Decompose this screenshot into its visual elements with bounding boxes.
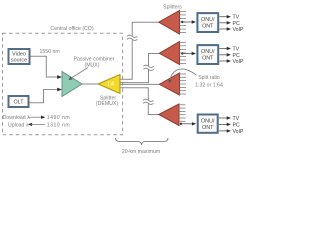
wire: MUX to DEMUX	[82, 83, 98, 85]
wire: DEMUX output 3 to splitter 3	[120, 83, 159, 85]
svg-text:ONU/: ONU/	[201, 17, 215, 23]
combiner triangle: Passive combiner (MUX)	[62, 72, 82, 97]
outputs: TV PC VoIP of ONU 1	[219, 15, 244, 33]
box: OLT	[9, 96, 29, 107]
label: Passive combiner (MUX)	[74, 57, 115, 69]
svg-text:TV: TV	[233, 47, 240, 53]
dashed enclosure: Central office (CO)	[3, 33, 123, 135]
label: 1550 nm	[40, 49, 60, 55]
svg-text:ONU/: ONU/	[201, 118, 215, 124]
splitter triangle 3	[159, 73, 186, 95]
label: Splitter (DEMUX)	[96, 95, 118, 107]
svg-text:Upload λ: Upload λ	[8, 122, 29, 128]
label row: Download wavelength 1490 nm	[3, 115, 71, 121]
svg-text:VoIP: VoIP	[233, 27, 244, 33]
callout arrow to MUX	[69, 68, 89, 81]
brace: 20-km span	[115, 138, 168, 145]
label row: Upload wavelength 1310 nm	[8, 122, 70, 128]
svg-text:OLT: OLT	[13, 100, 24, 106]
wire: DEMUX output 4 to splitter 4	[120, 88, 159, 115]
outputs: TV PC VoIP of ONU 3	[219, 116, 244, 135]
splitter triangle 4	[159, 104, 186, 126]
svg-text:VoIP: VoIP	[233, 129, 244, 135]
svg-text:VoIP: VoIP	[233, 59, 244, 65]
box: ONU/ONT 1	[197, 13, 218, 32]
wire: DEMUX output 2 to splitter 2	[120, 54, 159, 83]
svg-text:20-km maximum: 20-km maximum	[122, 149, 160, 155]
svg-text:PC: PC	[233, 122, 240, 128]
svg-text:ONU/: ONU/	[201, 49, 215, 55]
svg-text:1:4: 1:4	[107, 82, 114, 88]
label: Splitters	[163, 4, 182, 10]
label: Central office (CO)	[50, 26, 93, 32]
svg-text:1310 nm: 1310 nm	[47, 122, 70, 128]
break symbol on wire 2	[143, 65, 153, 70]
break symbol on wire 4	[143, 99, 153, 104]
svg-text:Central office (CO): Central office (CO)	[50, 26, 93, 32]
splitter triangle 1	[159, 11, 186, 35]
svg-text:source: source	[11, 58, 27, 64]
label: Split ratio 1:32 or 1:64	[195, 75, 223, 88]
svg-text:(DEMUX): (DEMUX)	[96, 101, 118, 107]
svg-text:1550 nm: 1550 nm	[40, 49, 60, 55]
svg-text:TV: TV	[233, 116, 240, 122]
box: Video source	[9, 49, 30, 64]
outputs: TV PC VoIP of ONU 2	[219, 47, 244, 66]
svg-text:(MUX): (MUX)	[85, 63, 100, 69]
wire: video source to combiner	[31, 56, 63, 79]
label: 20-km maximum	[122, 149, 160, 155]
splitter triangle 2	[159, 42, 186, 65]
svg-text:1490 nm: 1490 nm	[47, 115, 70, 121]
wire: splitter 1 to ONU 1	[181, 20, 196, 23]
svg-text:ONT: ONT	[202, 24, 214, 30]
wire: splitter 2 to ONU 2	[181, 52, 196, 55]
box: ONU/ONT 3	[198, 115, 218, 133]
svg-text:Split ratio: Split ratio	[198, 75, 220, 81]
svg-text:1:32 or 1:64: 1:32 or 1:64	[195, 82, 223, 88]
svg-text:ONT: ONT	[202, 125, 214, 131]
svg-text:TV: TV	[233, 15, 240, 21]
break symbol on wire 1	[127, 35, 137, 40]
svg-text:Splitters: Splitters	[163, 4, 182, 10]
svg-text:Download λ: Download λ	[3, 115, 31, 121]
svg-text:PC: PC	[233, 21, 240, 27]
svg-text:PC: PC	[233, 53, 240, 59]
splitter triangle: Splitter (DEMUX) 1:4	[98, 75, 120, 94]
wire: OLT to combiner	[30, 88, 63, 103]
callout: split ratio	[168, 69, 197, 83]
wire: DEMUX output 1 to splitter 1	[120, 22, 159, 79]
svg-text:ONT: ONT	[202, 56, 214, 62]
wire: splitter 4 to ONU 3	[180, 122, 196, 125]
box: ONU/ONT 2	[197, 45, 218, 64]
